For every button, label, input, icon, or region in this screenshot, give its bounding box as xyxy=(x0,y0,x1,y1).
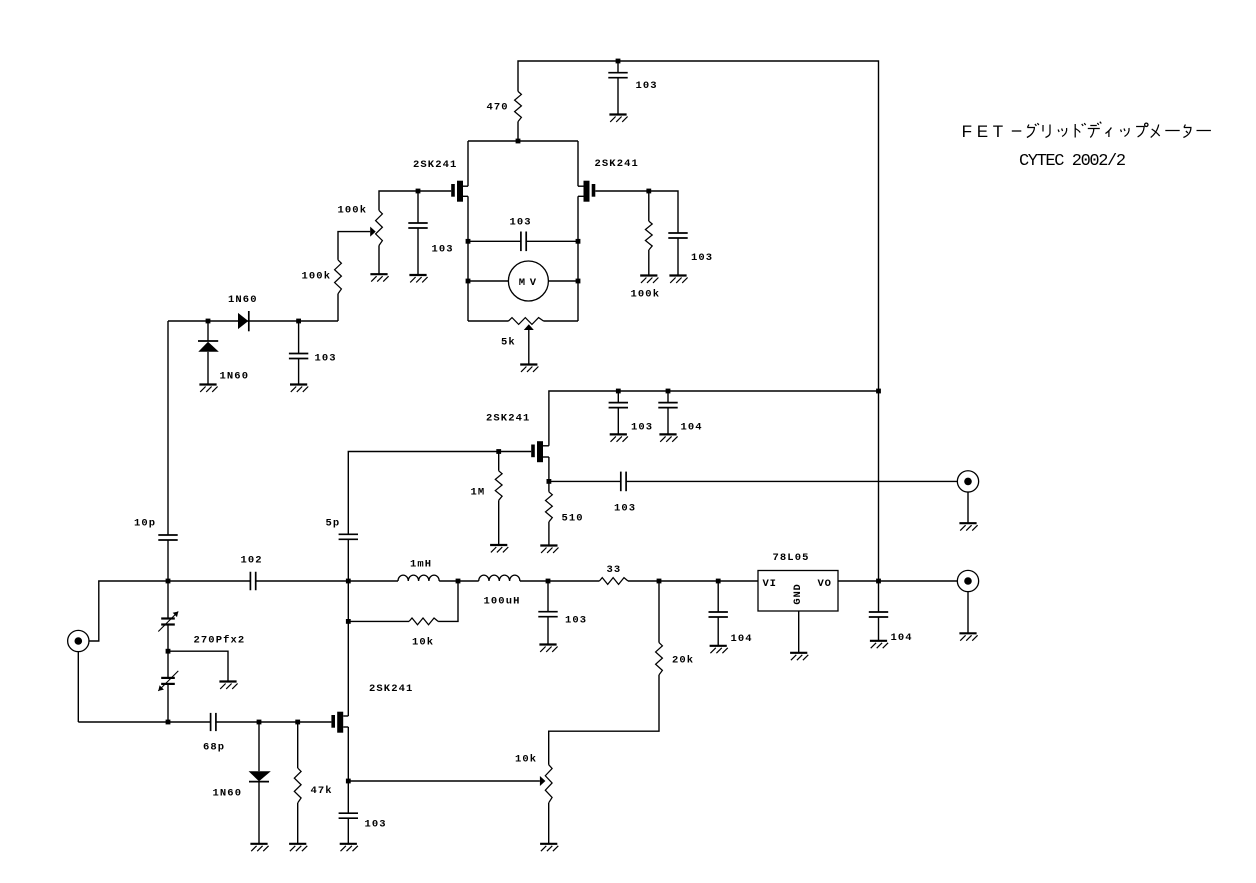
svg-text:104: 104 xyxy=(681,422,703,434)
svg-text:47k: 47k xyxy=(311,785,333,797)
svg-text:102: 102 xyxy=(241,555,263,567)
svg-text:CYTEC 2002/2: CYTEC 2002/2 xyxy=(1019,152,1125,171)
svg-text:103: 103 xyxy=(614,503,636,515)
svg-text:2SK241: 2SK241 xyxy=(413,159,457,171)
svg-text:103: 103 xyxy=(631,422,653,434)
svg-text:10k: 10k xyxy=(515,754,537,766)
svg-text:1N60: 1N60 xyxy=(213,788,243,800)
svg-text:103: 103 xyxy=(510,217,532,229)
svg-text:100k: 100k xyxy=(302,271,332,283)
svg-text:VI: VI xyxy=(763,578,777,590)
svg-text:78L05: 78L05 xyxy=(773,552,810,564)
svg-text:1M: 1M xyxy=(471,487,486,499)
svg-text:100k: 100k xyxy=(338,205,368,217)
svg-text:10k: 10k xyxy=(412,637,434,649)
svg-text:VO: VO xyxy=(818,578,832,590)
svg-text:20k: 20k xyxy=(672,655,694,667)
svg-text:510: 510 xyxy=(562,513,584,525)
svg-text:68p: 68p xyxy=(203,742,225,754)
svg-text:F: F xyxy=(962,122,972,141)
svg-text:1mH: 1mH xyxy=(410,559,432,571)
svg-text:1N60: 1N60 xyxy=(220,371,250,383)
svg-text:270Pfx2: 270Pfx2 xyxy=(194,635,246,647)
svg-text:GND: GND xyxy=(792,583,804,604)
svg-text:104: 104 xyxy=(891,632,913,644)
svg-text:5k: 5k xyxy=(501,337,516,349)
svg-text:470: 470 xyxy=(487,102,509,114)
svg-text:2SK241: 2SK241 xyxy=(595,158,639,170)
svg-text:T: T xyxy=(993,122,1003,141)
svg-text:1N60: 1N60 xyxy=(228,294,258,306)
svg-text:100uH: 100uH xyxy=(484,596,521,608)
svg-text:103: 103 xyxy=(636,80,658,92)
svg-text:103: 103 xyxy=(565,615,587,627)
svg-text:104: 104 xyxy=(731,633,753,645)
svg-text:103: 103 xyxy=(315,353,337,365)
svg-text:33: 33 xyxy=(607,564,622,576)
svg-text:2SK241: 2SK241 xyxy=(486,413,530,425)
svg-text:103: 103 xyxy=(691,252,713,264)
svg-text:5p: 5p xyxy=(326,518,341,530)
svg-text:MV: MV xyxy=(519,277,541,289)
svg-text:103: 103 xyxy=(365,819,387,831)
svg-text:103: 103 xyxy=(432,244,454,256)
svg-text:100k: 100k xyxy=(631,289,661,301)
svg-text:2SK241: 2SK241 xyxy=(369,683,413,695)
svg-text:E: E xyxy=(977,122,988,141)
svg-text:10p: 10p xyxy=(134,518,156,530)
